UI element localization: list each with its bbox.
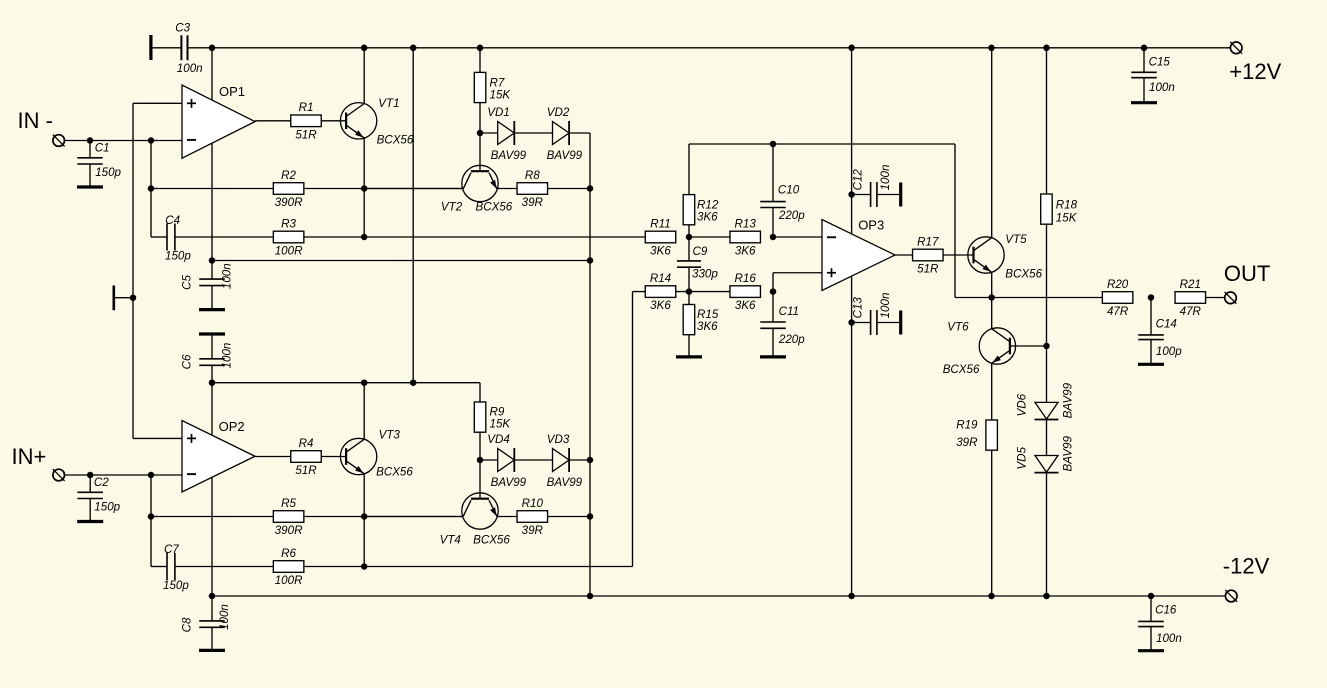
capacitor C16 <box>1138 596 1182 651</box>
wire R11-R13 row <box>689 236 730 238</box>
junction <box>477 457 484 464</box>
diode VD6 <box>1016 382 1075 419</box>
svg-text:R20: R20 <box>1107 278 1129 291</box>
capacitor C12 <box>852 165 901 207</box>
wire VD1-VD2 <box>514 132 552 134</box>
ground R15 <box>676 355 702 358</box>
wire R3 row <box>175 236 646 238</box>
junction <box>686 234 693 241</box>
svg-text:-12V: -12V <box>1223 553 1270 578</box>
svg-text:39R: 39R <box>522 196 544 209</box>
svg-text:39R: 39R <box>956 436 978 449</box>
svg-text:VD4: VD4 <box>487 433 510 446</box>
capacitor C9 <box>677 237 718 292</box>
svg-text:3K6: 3K6 <box>697 320 718 333</box>
wire OP2 rail <box>212 382 480 384</box>
wire +12V to OP2 rail <box>412 48 414 383</box>
capacitor C4 <box>151 214 191 263</box>
svg-text:C16: C16 <box>1155 604 1177 617</box>
svg-text:3K6: 3K6 <box>735 245 756 258</box>
resistor R20 <box>1102 278 1133 318</box>
op-amp OP2 <box>182 419 255 492</box>
wire R12 top <box>688 144 690 195</box>
svg-text:VD6: VD6 <box>1016 393 1029 416</box>
wire R5 row <box>151 516 462 518</box>
junction <box>361 563 368 570</box>
wire VD5 bottom <box>1046 473 1048 597</box>
svg-text:BAV99: BAV99 <box>1062 382 1075 418</box>
wire R10 right <box>548 516 590 518</box>
svg-text:150p: 150p <box>165 250 191 263</box>
junction <box>361 185 368 192</box>
svg-text:VT4: VT4 <box>440 534 462 547</box>
svg-text:VD3: VD3 <box>547 433 570 446</box>
svg-text:C11: C11 <box>779 305 799 318</box>
wire VT4 base <box>479 460 481 499</box>
junction <box>410 379 417 386</box>
svg-text:C5: C5 <box>181 275 194 290</box>
svg-text:BCX56: BCX56 <box>943 363 980 376</box>
junction <box>770 234 777 241</box>
svg-text:R21: R21 <box>1180 278 1201 291</box>
svg-text:C4: C4 <box>165 214 180 227</box>
svg-text:3K6: 3K6 <box>735 299 756 312</box>
resistor R17 <box>913 235 944 275</box>
svg-text:100n: 100n <box>879 165 892 191</box>
capacitor C15 <box>1131 48 1175 103</box>
svg-text:VT3: VT3 <box>379 429 401 442</box>
junction <box>1148 593 1155 600</box>
transistor VT5 <box>968 233 1043 281</box>
junction <box>988 45 995 52</box>
svg-text:VD5: VD5 <box>1016 446 1029 469</box>
svg-text:C15: C15 <box>1149 56 1171 69</box>
resistor R5 <box>273 497 304 537</box>
svg-text:C8: C8 <box>181 617 194 632</box>
wire R15 leads <box>688 292 690 357</box>
wire R17 to VT5 <box>943 254 973 256</box>
resistor R10 <box>517 497 548 537</box>
svg-text:C1: C1 <box>95 142 110 155</box>
svg-text:R14: R14 <box>650 272 672 285</box>
svg-text:150p: 150p <box>163 579 189 592</box>
svg-text:+12V: +12V <box>1229 59 1281 84</box>
svg-text:C7: C7 <box>164 543 179 556</box>
junction <box>1043 343 1050 350</box>
wire VT6 base <box>1010 345 1047 347</box>
junction <box>587 513 594 520</box>
wire IN+ to OP2 <box>65 474 182 476</box>
svg-text:15K: 15K <box>1056 212 1078 225</box>
svg-text:100n: 100n <box>218 604 231 630</box>
capacitor C7 <box>151 543 189 592</box>
junction <box>770 288 777 295</box>
svg-text:100p: 100p <box>1156 345 1182 358</box>
svg-text:100n: 100n <box>221 263 234 289</box>
svg-text:BCX56: BCX56 <box>377 134 414 147</box>
wire VT3 emitter <box>363 474 365 567</box>
transistor VT3 <box>340 429 413 479</box>
svg-text:220p: 220p <box>778 333 805 346</box>
resistor R16 <box>730 272 761 312</box>
wire R2 row <box>151 188 464 190</box>
junction <box>587 593 594 600</box>
junction <box>148 472 155 479</box>
junction <box>848 191 855 198</box>
wire R21 to OUT <box>1205 297 1224 299</box>
svg-text:100n: 100n <box>177 62 203 75</box>
wire VT5 collector <box>991 48 993 238</box>
diode VD2 <box>547 106 583 162</box>
wire R6 row <box>175 566 633 568</box>
junction <box>587 457 594 464</box>
terminal IN+ <box>53 469 65 481</box>
svg-text:BAV99: BAV99 <box>1062 436 1075 472</box>
svg-text:R4: R4 <box>299 437 314 450</box>
resistor R4 <box>291 437 322 477</box>
wire long vertical net <box>589 189 591 597</box>
svg-text:VT2: VT2 <box>441 201 463 214</box>
svg-text:BCX56: BCX56 <box>1005 268 1042 281</box>
junction <box>988 294 995 301</box>
junction <box>848 319 855 326</box>
junction <box>477 130 484 137</box>
transistor VT1 <box>340 97 413 147</box>
svg-text:100n: 100n <box>1156 632 1182 645</box>
capacitor C10 <box>760 144 805 237</box>
capacitor C5 <box>181 261 234 310</box>
svg-text:OP2: OP2 <box>219 419 245 434</box>
wire IN- to OP1 <box>65 140 182 142</box>
terminal -12V <box>1223 553 1270 602</box>
svg-text:390R: 390R <box>275 196 303 209</box>
diode VD3 <box>547 433 583 489</box>
svg-text:BCX56: BCX56 <box>376 466 413 479</box>
resistor R6 <box>273 547 304 587</box>
diode VD4 <box>487 433 526 489</box>
wire OP1 output <box>255 120 291 122</box>
wire OP2 output <box>255 456 291 458</box>
wire R9 bottom <box>479 432 481 460</box>
svg-text:IN -: IN - <box>18 108 53 133</box>
resistor R19 <box>956 419 997 451</box>
wire R8 right <box>548 188 590 190</box>
svg-text:OP3: OP3 <box>858 218 884 233</box>
svg-text:C3: C3 <box>175 22 190 35</box>
svg-text:C12: C12 <box>852 169 865 191</box>
capacitor C13 <box>852 293 901 335</box>
svg-text:R6: R6 <box>281 547 296 560</box>
svg-text:R17: R17 <box>917 235 939 248</box>
junction <box>410 45 417 52</box>
resistor R3 <box>273 217 304 257</box>
wire VD6-VD5 <box>1046 420 1048 456</box>
junction <box>848 593 855 600</box>
terminal IN- <box>53 135 65 147</box>
junction <box>361 45 368 52</box>
junction <box>148 513 155 520</box>
wire VD4-VD3 <box>514 459 552 461</box>
wire VD4 anode <box>480 459 498 461</box>
ground stub <box>114 286 133 311</box>
svg-text:C2: C2 <box>94 476 109 489</box>
svg-text:VT6: VT6 <box>947 321 969 334</box>
transistor VT2 <box>441 165 513 213</box>
wire R14 row <box>633 291 731 293</box>
capacitor C11 <box>760 292 805 357</box>
svg-text:R11: R11 <box>650 217 670 230</box>
junction <box>361 379 368 386</box>
junction <box>587 257 594 264</box>
svg-text:R8: R8 <box>525 169 540 182</box>
wire feedback column <box>150 141 152 238</box>
junction <box>209 45 216 52</box>
svg-text:R5: R5 <box>281 497 296 510</box>
wire lower feedback column <box>150 475 152 567</box>
junction <box>477 45 484 52</box>
svg-text:C10: C10 <box>778 184 800 197</box>
wire to VD6 <box>1046 346 1048 402</box>
resistor R11 <box>645 217 676 257</box>
capacitor C6 <box>181 334 234 383</box>
svg-text:3K6: 3K6 <box>650 245 671 258</box>
wire R7 bottom <box>479 103 481 133</box>
wire -12V rail <box>212 595 1230 597</box>
wire to OP3 +input <box>773 273 822 292</box>
capacitor C14 <box>1138 298 1182 365</box>
wire C5 row <box>212 260 590 262</box>
resistor R15 <box>683 305 719 335</box>
svg-text:390R: 390R <box>275 524 303 537</box>
svg-text:100n: 100n <box>221 343 234 369</box>
svg-text:R18: R18 <box>1056 198 1078 211</box>
svg-text:R19: R19 <box>956 419 978 432</box>
wire VT6 emitter <box>991 363 993 420</box>
resistor R8 <box>517 169 548 209</box>
svg-text:100R: 100R <box>275 574 303 587</box>
junction <box>988 593 995 600</box>
svg-text:51R: 51R <box>295 128 317 141</box>
capacitor C8 <box>181 596 232 650</box>
wire VD1 anode <box>480 132 498 134</box>
svg-text:100n: 100n <box>879 293 892 319</box>
svg-text:R13: R13 <box>735 217 757 230</box>
svg-text:BAV99: BAV99 <box>491 476 527 489</box>
svg-text:3K6: 3K6 <box>650 299 671 312</box>
wire VT2 base <box>479 133 481 171</box>
junction <box>1148 294 1155 301</box>
svg-text:C13: C13 <box>852 297 865 319</box>
diode VD1 <box>487 106 526 162</box>
capacitor C1 <box>77 141 122 188</box>
wire +12V rail <box>189 47 1231 49</box>
wire R1 to VT1 <box>321 120 346 122</box>
resistor R1 <box>291 101 322 141</box>
wire VT6 collector <box>991 298 993 329</box>
svg-text:330p: 330p <box>692 268 718 281</box>
junction <box>87 137 94 144</box>
svg-text:OUT: OUT <box>1224 261 1270 286</box>
svg-text:150p: 150p <box>94 500 120 513</box>
svg-text:VD2: VD2 <box>547 106 570 119</box>
svg-text:BCX56: BCX56 <box>473 534 510 547</box>
resistor R21 <box>1175 278 1206 318</box>
svg-text:150p: 150p <box>95 166 121 179</box>
junction <box>686 288 693 295</box>
svg-text:100n: 100n <box>1149 81 1175 94</box>
svg-text:15K: 15K <box>490 418 512 431</box>
op-amp OP1 <box>182 84 255 158</box>
svg-text:47R: 47R <box>1180 305 1202 318</box>
wire OP2 power <box>211 383 213 596</box>
junction <box>209 257 216 264</box>
junction <box>148 137 155 144</box>
junction <box>1043 593 1050 600</box>
wire VT1 collector <box>363 48 365 104</box>
capacitor C3 <box>151 22 203 75</box>
wire VT4 to R10 <box>497 516 517 518</box>
wire R18 top <box>1046 48 1048 194</box>
svg-text:C9: C9 <box>693 245 708 258</box>
svg-text:47R: 47R <box>1107 305 1129 318</box>
svg-text:R1: R1 <box>299 101 314 114</box>
transistor VT4 <box>440 493 511 547</box>
svg-text:C14: C14 <box>1156 318 1178 331</box>
wire OUT row <box>992 297 1103 299</box>
svg-text:15K: 15K <box>490 89 512 102</box>
resistor R9 <box>474 402 511 432</box>
svg-text:R3: R3 <box>281 217 296 230</box>
resistor R13 <box>730 217 761 257</box>
wire R18 to VT6 base <box>1046 224 1048 346</box>
junction <box>209 379 216 386</box>
svg-text:R10: R10 <box>522 497 544 510</box>
resistor R14 <box>645 272 676 312</box>
wire R19 bottom <box>991 450 993 596</box>
wire R7 top <box>479 48 481 73</box>
svg-text:IN+: IN+ <box>12 444 47 469</box>
op-amp OP3 <box>822 218 895 291</box>
wire feedback top <box>689 143 955 145</box>
junction common node <box>130 294 137 301</box>
wire feedback right <box>955 144 992 298</box>
junction <box>361 234 368 241</box>
svg-text:OP1: OP1 <box>219 84 245 99</box>
transistor VT6 <box>943 321 1016 377</box>
svg-text:R2: R2 <box>281 169 296 182</box>
wire R4 to VT3 <box>321 456 346 458</box>
wire R12 bottom <box>688 225 690 237</box>
wire OP1 +input <box>133 103 182 438</box>
svg-text:BCX56: BCX56 <box>476 201 513 214</box>
wire R5 row to VT4 <box>364 516 463 518</box>
wire R6 to R14 riser <box>632 292 634 567</box>
wire VT3 collector <box>363 383 365 440</box>
junction <box>1043 45 1050 52</box>
svg-text:51R: 51R <box>917 263 939 276</box>
junction <box>209 593 216 600</box>
svg-text:100R: 100R <box>275 245 303 258</box>
capacitor C2 <box>77 475 120 522</box>
svg-text:39R: 39R <box>522 524 544 537</box>
resistor R18 <box>1041 194 1078 225</box>
junction <box>1141 45 1148 52</box>
junction <box>587 185 594 192</box>
wire OP1 power <box>211 48 213 261</box>
junction <box>87 472 94 479</box>
svg-text:BAV99: BAV99 <box>491 149 527 162</box>
wire R9 top <box>479 383 481 402</box>
wire VD2 to corner <box>569 133 590 189</box>
wire OP3 power <box>851 48 853 596</box>
svg-text:VT1: VT1 <box>378 97 399 110</box>
wire OP3 output <box>894 254 913 256</box>
diode VD5 <box>1016 436 1075 473</box>
junction <box>148 185 155 192</box>
svg-text:R16: R16 <box>735 272 757 285</box>
wire VD3 right <box>569 459 590 461</box>
terminal OUT <box>1224 261 1270 304</box>
resistor R7 <box>474 72 511 102</box>
svg-text:VD1: VD1 <box>487 106 510 119</box>
wire R2 row to VT2 <box>364 188 463 190</box>
resistor R2 <box>273 169 304 209</box>
wire OP2 +input <box>133 437 182 439</box>
wire VT1 emitter <box>363 138 365 237</box>
svg-text:51R: 51R <box>295 464 317 477</box>
svg-text:220p: 220p <box>778 209 805 222</box>
svg-text:BAV99: BAV99 <box>547 476 583 489</box>
terminal +12V <box>1229 42 1281 84</box>
svg-text:C6: C6 <box>181 354 194 369</box>
svg-text:BAV99: BAV99 <box>547 149 583 162</box>
junction <box>770 141 777 148</box>
junction <box>848 45 855 52</box>
wire to OP3 -input <box>773 236 822 238</box>
wire VT2 to R8 <box>497 188 517 190</box>
wire VT5 emitter <box>991 272 993 297</box>
junction <box>361 513 368 520</box>
resistor R12 <box>683 195 719 225</box>
svg-text:VT5: VT5 <box>1005 233 1027 246</box>
svg-text:3K6: 3K6 <box>697 210 718 223</box>
